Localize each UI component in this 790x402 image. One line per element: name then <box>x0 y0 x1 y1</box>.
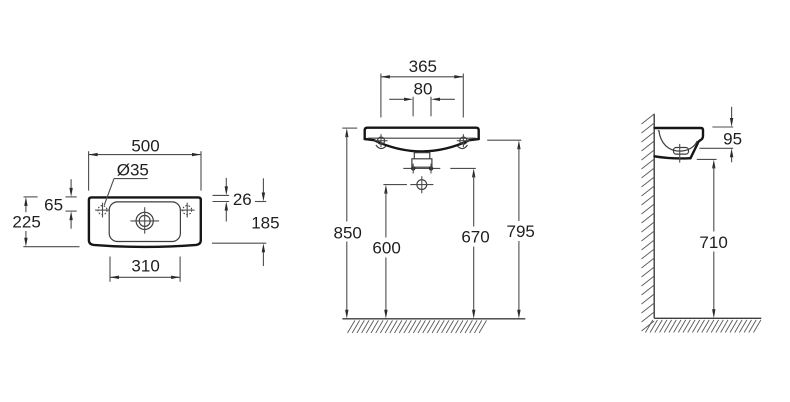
basin side rim back tick <box>658 130 660 132</box>
drain upper box <box>414 151 430 158</box>
right under-lip arc <box>458 145 468 149</box>
dimension 850 <box>334 128 362 319</box>
bolt line <box>403 167 440 169</box>
dimension 310 <box>110 257 180 282</box>
floor line (front view) <box>342 318 525 320</box>
dimension 795 <box>487 140 535 319</box>
svg-text:365: 365 <box>409 57 437 76</box>
svg-text:26: 26 <box>233 190 252 209</box>
tap hole left (plan) <box>95 203 110 218</box>
drain outer circle <box>136 212 153 229</box>
dimension 80 <box>389 79 455 116</box>
dimension 185 <box>212 178 280 266</box>
basin side bowl inner curve <box>659 130 697 151</box>
dimension 95 <box>699 107 742 163</box>
floor line (side view) <box>654 317 761 319</box>
svg-text:310: 310 <box>131 257 159 276</box>
drain cross vertical <box>144 207 146 234</box>
basin front rim outline <box>365 128 479 139</box>
svg-text:185: 185 <box>251 213 279 232</box>
svg-text:600: 600 <box>372 238 400 257</box>
svg-text:95: 95 <box>723 129 742 148</box>
bolt left <box>411 166 415 170</box>
outlet circle <box>417 180 427 190</box>
outlet cross vertical <box>421 176 423 193</box>
dimension 26 <box>213 178 252 222</box>
basin side drain <box>674 148 689 155</box>
floor hatching (side view) <box>645 320 761 333</box>
svg-text:670: 670 <box>461 227 489 246</box>
dimension 670 <box>450 168 489 318</box>
label diameter 35 with leader <box>104 161 149 205</box>
svg-text:710: 710 <box>699 233 727 252</box>
dimension 365 <box>381 57 463 118</box>
basin side bottom edge <box>655 156 691 158</box>
dimension 65 <box>44 179 77 229</box>
tap hole right (plan) <box>180 203 195 218</box>
wall line <box>653 114 655 318</box>
svg-text:80: 80 <box>414 79 433 98</box>
basin front bowl silhouette <box>365 139 479 151</box>
svg-text:500: 500 <box>131 136 159 155</box>
dimension 500 <box>89 136 201 190</box>
drain inner circle <box>139 215 150 226</box>
basin side profile outline <box>655 128 704 158</box>
rim underside line <box>368 137 476 139</box>
tap marker right (front) <box>457 134 470 147</box>
left under-lip arc <box>376 145 386 149</box>
basin plan outline <box>89 197 201 247</box>
dimension 600 <box>372 185 406 319</box>
dimension 225 <box>12 197 79 247</box>
drain cross horizontal <box>130 220 159 222</box>
floor hatching (front view) <box>348 320 487 333</box>
svg-text:850: 850 <box>334 223 362 242</box>
basin side center line <box>679 144 681 163</box>
svg-text:225: 225 <box>12 213 40 232</box>
dimension 710 <box>697 159 728 318</box>
svg-text:65: 65 <box>44 195 63 214</box>
bolt right <box>429 166 433 170</box>
outlet cross horizontal <box>410 184 433 186</box>
tap marker left (front) <box>374 134 387 147</box>
trap body box <box>412 159 432 167</box>
basin inner bowl plan <box>109 202 180 242</box>
svg-text:795: 795 <box>507 222 535 241</box>
wall hatching <box>642 114 655 331</box>
svg-text:Ø35: Ø35 <box>117 161 149 180</box>
